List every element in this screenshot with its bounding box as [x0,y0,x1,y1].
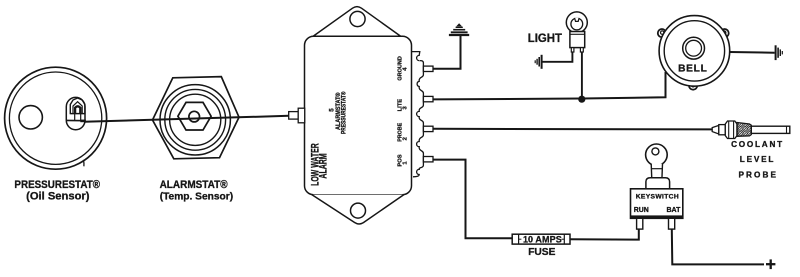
bell mounting ears [658,29,729,90]
svg-text:2: 2 [403,137,409,140]
terminal 3 pin [423,96,433,101]
bell center button [683,37,705,59]
svg-text:(Oil Sensor): (Oil Sensor) [26,191,90,203]
svg-text:ALARM: ALARM [317,153,329,178]
wire: terminal 1 (POS) to fuse [433,160,512,239]
svg-text:5: 5 [328,108,335,112]
svg-text:COOLANT: COOLANT [731,140,784,149]
wire: light to chassis ground [543,52,573,62]
label COOLANT LEVEL PROBE [731,140,784,179]
light socket pins [571,48,583,52]
module mounting hole top [350,11,365,26]
gauge PRESSURESTAT outer body [5,67,107,169]
svg-text:PROBE: PROBE [738,170,778,179]
terminal 1 pin [423,157,433,162]
svg-text:ALARMSTAT®: ALARMSTAT® [160,180,228,191]
label LOW WATER ALARM [309,143,329,186]
label ALARMSTAT PRESSURESTAT (module) [335,91,348,134]
module mounting tab bottom [312,195,404,224]
temp sensor ALARMSTAT hex body [153,77,240,159]
svg-text:PRESSURESTAT®: PRESSURESTAT® [14,180,100,191]
terminal 2 pin [423,126,433,131]
coolant probe knurled section [737,123,751,137]
svg-text:BELL: BELL [678,64,707,75]
chassis ground symbol (light) [535,55,541,69]
label ALARMSTAT (Temp. Sensor) [160,180,234,203]
module mounting hole bottom [351,203,366,218]
svg-text:RUN: RUN [634,207,649,214]
wire junction (light tap) [578,96,585,103]
coolant probe tip [712,125,719,134]
key shaft [651,164,662,180]
chassis ground symbol (bell) [776,45,783,60]
light socket [570,32,585,48]
wire: terminal 2 (PROBE) to coolant probe [433,128,713,131]
gauge needle tick [82,160,85,167]
terminal 4 pin [423,66,433,71]
svg-text:BAT: BAT [667,207,682,214]
battery positive terminal + [766,259,775,269]
wire: light to LITE junction [581,52,583,96]
label PRESSURESTAT (Oil Sensor) [14,180,100,203]
wire: sensors to module terminal 5 [84,116,289,122]
svg-text:LEVEL: LEVEL [740,155,775,164]
module terminal strip edge [412,52,423,177]
indicator light bulb [566,12,587,33]
earth ground symbol (terminal 4) [449,23,469,35]
svg-text:KEYSWITCH: KEYSWITCH [636,194,679,201]
wire: terminal 4 to earth ground [433,36,461,69]
keyswitch lock cylinder [646,178,670,189]
svg-text:FUSE: FUSE [528,247,555,258]
fuse body 10 AMPS [512,234,570,244]
key head [646,144,668,166]
module mounting tab top [313,7,401,37]
terminal 5 pin (left) [289,108,305,123]
svg-text:LIGHT: LIGHT [528,30,563,45]
keyswitch BAT pin [669,218,675,229]
wire: terminal 3 (LITE) to bell [433,72,666,99]
svg-text:(Temp. Sensor): (Temp. Sensor) [160,192,233,203]
oil pressure sender unit [66,97,86,129]
svg-text:PRESSURESTAT®: PRESSURESTAT® [340,91,348,134]
wire: fuse to keyswitch RUN [570,230,639,240]
svg-text:10 AMPS: 10 AMPS [523,234,562,244]
module body LOW WATER ALARM [305,36,412,194]
bell body [659,16,730,87]
gauge sub-dial circle [19,106,42,129]
coolant probe hex nut [725,121,737,139]
coolant probe collar [719,125,726,135]
wire: bell to chassis ground [730,51,775,54]
wire: keyswitch BAT to battery [672,229,764,264]
keyswitch box [631,189,683,219]
keyswitch RUN pin [637,218,643,229]
coolant probe body [751,126,790,133]
